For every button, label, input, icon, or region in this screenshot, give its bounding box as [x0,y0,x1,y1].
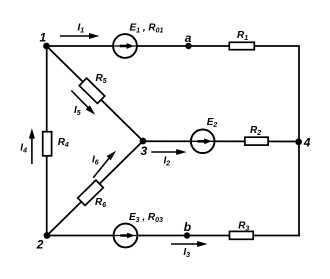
wire middle: node3 to node4 [143,140,299,142]
wire diagonal: node2 to node3 [47,141,143,236]
source E2 [191,130,215,154]
label node 1 [40,30,47,44]
current arrow I6 (up-right along diagonal) [93,151,116,178]
node a junction dot [185,43,191,49]
resistor R5 (rotated 45deg on diagonal 1-3) [79,78,105,103]
wire bottom: node2 to bottom-right corner [47,235,300,237]
label node 2 [36,237,44,251]
svg-text:1: 1 [40,30,47,44]
svg-text:4: 4 [303,136,311,150]
node 1 junction dot [43,43,50,50]
resistor R3 [230,231,254,239]
wire top: node1 to top-right corner [47,45,300,47]
current arrow I4 (pointing up) [29,128,35,164]
svg-text:3: 3 [141,144,148,158]
source E1 with internal resistance R01 [113,34,137,58]
resistor R4 [43,132,52,156]
node 4 junction dot [295,138,302,145]
label I4 [20,143,27,155]
current arrow I1 [60,33,100,39]
svg-text:a: a [185,31,192,45]
node 2 junction dot [44,232,51,239]
label I1 [78,23,85,35]
label E3 , R03 [129,212,163,224]
label node 3 [141,144,148,158]
label node a [185,31,192,45]
node 3 junction dot [140,138,147,145]
label node 4 [303,136,311,150]
label E1 , R01 [130,23,164,35]
resistor R6 (rotated -45deg on diagonal 2-3) [78,180,104,205]
label R4 [58,137,69,149]
label R2 [250,125,261,137]
label R3 [238,221,249,233]
current arrow I2 [151,149,186,155]
label I5 [74,105,81,117]
resistor R1 [229,42,254,49]
wire diagonal: node1 to node3 [47,46,144,141]
label R6 [95,197,106,209]
wire right: top-right corner down to bottom-right corner through node 4 [298,45,300,236]
svg-text:b: b [184,220,191,234]
resistor R2 [245,137,268,145]
node b junction dot [184,232,190,238]
current arrow I3 [171,241,208,247]
label R1 [237,30,248,42]
label E2 [207,117,218,129]
label node b [184,220,191,234]
label I6 [92,155,99,167]
svg-text:2: 2 [36,237,44,251]
current arrow I5 (down-right along diagonal) [71,91,95,115]
label I3 [183,247,190,259]
label R5 [96,73,107,85]
label I2 [164,156,171,168]
source E3 with internal resistance R03 [114,224,138,248]
wire left: node1 to node2 [46,46,48,236]
